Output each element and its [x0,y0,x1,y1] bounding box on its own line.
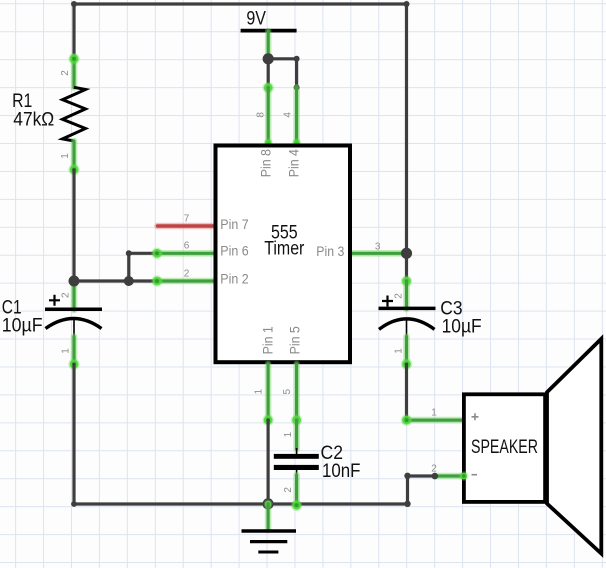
pin number 2 (R1 top) [60,70,71,76]
label C1 value [2,297,43,336]
label C3 value [440,298,481,337]
speaker LS1 horn [547,339,601,554]
node speaker minus wire endpoint [460,473,467,480]
svg-text:2: 2 [394,293,405,299]
node C3 bottom endpoint [402,360,411,369]
label 555 Timer [264,222,305,259]
svg-text:1: 1 [283,431,294,437]
wire speaker minus branch vertical [406,476,409,504]
node pin6 branch corner [126,250,132,256]
wire 555 pin7 (red) [158,223,214,230]
svg-text:4: 4 [283,112,294,118]
wire left rail upper [72,4,75,58]
svg-text:3: 3 [375,242,381,253]
pin number 1 (555 pin1 wire) [254,388,265,394]
resistor R1 [63,87,86,141]
speaker minus terminal [472,474,478,476]
pin number 1 (C3 bottom) [394,348,405,354]
svg-text:Pin 3: Pin 3 [316,243,344,259]
wire 9V to pin4 column [268,57,296,60]
pin number 2 (speaker minus) [431,463,437,474]
node pin1 endpoint [264,416,273,425]
node C2 bottom endpoint [292,501,301,510]
wire 555 pin6 (green) [157,250,214,257]
pin number 2 (C2 bottom) [283,487,294,493]
wire pin6 branch vertical [127,253,130,281]
svg-text:5: 5 [282,388,293,394]
svg-text:Pin 5: Pin 5 [287,326,303,354]
svg-text:2: 2 [283,487,294,493]
wire right rail lower [405,364,408,420]
speaker LS1 body [464,394,545,502]
wire pin4 column upper (dark) [295,59,298,88]
wire speaker minus stub (dark) [408,474,435,477]
svg-text:2: 2 [61,292,72,298]
svg-text:1: 1 [254,388,265,394]
pin number 2 (C1 top) [61,292,72,298]
label SPEAKER [471,437,538,458]
svg-text:Pin 2: Pin 2 [220,271,249,287]
node pin8 top nub [265,140,271,146]
pin number 7 [184,214,190,225]
pin label Pin 8 [258,149,274,177]
wire ground lead (green) [265,504,272,530]
node top-right corner [404,1,410,7]
power 9V bar [241,29,297,33]
node minus branch bottom corner [404,501,410,507]
pin number 1 (C1 bottom) [61,348,72,354]
pin label Pin 3 [316,243,344,259]
svg-text:Timer: Timer [264,239,305,260]
node R1 pin1 endpoint [70,165,79,174]
pin number 3 [375,242,381,253]
pin label Pin 7 [220,216,249,232]
label R1 value [12,91,54,130]
node pin2 wire endpoint [153,277,162,286]
pin number 8 [256,112,267,118]
IC 555 timer U1 [216,146,351,363]
node C1 bottom endpoint [70,360,79,369]
wire pin6 branch horizontal [129,252,157,255]
node junction pin6 branch [124,276,134,286]
wire 555 pin2 (green) [157,278,214,285]
wire pin2 row horizontal (dark part) [74,279,157,282]
ground [242,531,297,552]
capacitor C2 [274,420,319,505]
svg-text:2: 2 [431,463,437,474]
pin label Pin 2 [220,271,249,287]
node bottom-left corner [71,501,77,507]
svg-text:Pin 4: Pin 4 [285,149,301,177]
pin label Pin 4 [285,149,301,177]
capacitor C3 [379,281,436,364]
pin label Pin 5 [287,326,303,354]
wire right rail to C3 [405,253,408,281]
wire top rail [74,2,407,5]
svg-text:10nF: 10nF [322,461,361,482]
svg-text:2: 2 [60,70,71,76]
node C3 top endpoint [402,277,411,286]
svg-text:Pin 6: Pin 6 [220,243,249,259]
wire 9V lead (green) [265,31,272,59]
label C2 value [321,443,361,482]
capacitor C1 [45,282,102,364]
wire 555 pin1 (green) [265,364,272,420]
node pin4 top nub [293,140,299,146]
node pin5 endpoint [292,416,301,425]
svg-text:Pin 8: Pin 8 [258,149,274,177]
pin number 4 [283,112,294,118]
node pin4 column corner [294,56,300,62]
svg-text:47kΩ: 47kΩ [13,109,54,130]
svg-text:1: 1 [431,408,437,419]
svg-text:1: 1 [60,153,71,159]
wire bottom rail [74,502,408,505]
svg-text:10µF: 10µF [2,316,43,337]
node pin8 wire endpoint [264,83,273,92]
wire 555 pin3 (green) [353,250,407,257]
node junction C1 top [69,276,80,287]
pin number 5 (555 pin5 wire) [282,388,293,394]
node speaker plus corner [402,416,411,425]
node junction pin3 [401,248,412,259]
node junction 9V [263,53,274,64]
pin number 6 [184,241,190,252]
node top-left corner [71,1,77,7]
svg-text:1: 1 [61,348,72,354]
node pin6 wire endpoint [153,249,162,258]
wire speaker minus (green) [435,473,464,480]
wire right rail upper [405,4,408,253]
speaker plus terminal [472,413,479,420]
pin number 2 (C3 top) [394,293,405,299]
svg-text:8: 8 [256,112,267,118]
pin number 2 (555 pin2 wire) [184,268,190,279]
pin label Pin 1 [259,326,275,354]
svg-text:Pin 1: Pin 1 [259,326,275,354]
svg-text:Pin 7: Pin 7 [220,216,249,232]
wire speaker plus (green) [407,417,463,424]
svg-text:9V: 9V [246,9,266,30]
pin number 1 (C2 top) [283,431,294,437]
svg-text:7: 7 [184,214,190,225]
svg-text:6: 6 [184,241,190,252]
wire 555 pin4 (green) [293,87,300,144]
pin number 1 (R1 bottom) [60,153,71,159]
pin number 1 (speaker plus) [431,408,437,419]
node minus stub left [404,473,410,479]
wire pin8 column upper (dark) [267,59,270,88]
node junction ground [263,498,274,509]
svg-text:2: 2 [184,268,190,279]
wire R1 pin2 lead (green) [71,57,78,88]
node R1 pin2 endpoint [70,54,79,63]
wire pin1 to bottom rail [267,420,270,504]
wire 555 pin8 (green) [265,88,272,144]
label 9V [246,9,266,30]
wire R1 pin1 lead (green) [71,141,78,170]
svg-text:10µF: 10µF [442,316,482,337]
pin label Pin 6 [220,243,249,259]
svg-text:1: 1 [394,348,405,354]
node minus stub mid [432,473,439,480]
node pin4 wire start [294,84,300,90]
wire 555 pin5 (green) [293,364,300,420]
wire left rail middle [72,170,75,281]
svg-text:SPEAKER: SPEAKER [471,437,538,458]
wire left rail lower [72,364,75,504]
